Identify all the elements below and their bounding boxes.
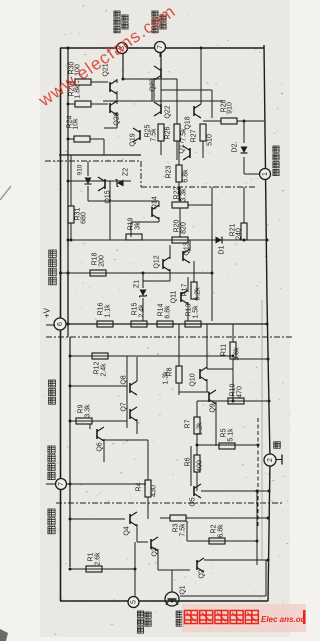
svg-text:R26: R26 <box>165 126 172 139</box>
svg-text:2.6k: 2.6k <box>95 552 102 566</box>
svg-text:R27: R27 <box>191 129 198 142</box>
svg-text:R3: R3 <box>173 523 180 532</box>
svg-text:7.5k: 7.5k <box>151 128 158 142</box>
svg-text:Q7: Q7 <box>121 402 128 411</box>
svg-text:6.8k: 6.8k <box>183 169 190 183</box>
svg-text:2: 2 <box>267 458 274 462</box>
svg-text:D2: D2 <box>232 143 239 152</box>
svg-text:R15: R15 <box>132 302 139 315</box>
svg-text:820: 820 <box>181 222 188 234</box>
svg-text:240: 240 <box>236 228 243 240</box>
svg-text:R2: R2 <box>211 524 218 533</box>
svg-text:Q6: Q6 <box>97 442 104 451</box>
svg-text:R14: R14 <box>158 303 165 316</box>
svg-text:Q1: Q1 <box>180 585 187 594</box>
svg-text:Q17: Q17 <box>179 140 186 153</box>
svg-text:7: 7 <box>58 482 65 486</box>
svg-text:3.3k: 3.3k <box>85 404 92 418</box>
svg-text:Q10: Q10 <box>190 373 197 386</box>
svg-text:R18: R18 <box>92 252 99 265</box>
svg-text:910: 910 <box>77 164 84 175</box>
svg-text:2.4k: 2.4k <box>101 363 108 377</box>
svg-text:5.1k: 5.1k <box>228 428 235 442</box>
svg-text:Q22: Q22 <box>165 105 172 118</box>
svg-text:R19: R19 <box>128 217 135 230</box>
svg-text:Z1: Z1 <box>134 280 141 288</box>
svg-text:R22: R22 <box>174 186 181 199</box>
svg-text:D1: D1 <box>219 245 226 254</box>
svg-text:R6: R6 <box>185 457 192 466</box>
svg-text:6.8k: 6.8k <box>218 524 225 538</box>
svg-text:3k: 3k <box>135 222 142 230</box>
svg-text:R9: R9 <box>78 404 85 413</box>
svg-text:R20: R20 <box>174 219 181 232</box>
svg-text:Q4: Q4 <box>124 526 131 535</box>
svg-text:Q13: Q13 <box>184 242 191 255</box>
svg-text:+V: +V <box>43 307 52 318</box>
svg-text:430: 430 <box>151 485 158 497</box>
svg-text:R16: R16 <box>98 302 105 315</box>
svg-text:3.3k: 3.3k <box>181 188 188 202</box>
svg-text:7: 7 <box>157 45 164 49</box>
svg-text:6: 6 <box>57 322 64 326</box>
svg-text:Q3: Q3 <box>152 547 159 556</box>
svg-text:Elec ans.oo: Elec ans.oo <box>261 615 306 624</box>
svg-text:7.5k: 7.5k <box>180 523 187 537</box>
svg-text:1.2k: 1.2k <box>197 422 204 436</box>
svg-text:Q9: Q9 <box>210 403 217 412</box>
svg-text:5: 5 <box>131 600 138 604</box>
svg-text:R5: R5 <box>221 428 228 437</box>
svg-text:R10: R10 <box>230 383 237 396</box>
svg-text:1.3k: 1.3k <box>163 371 170 385</box>
svg-text:R13: R13 <box>186 303 193 316</box>
svg-text:400: 400 <box>197 460 204 472</box>
svg-text:680: 680 <box>81 212 88 224</box>
svg-text:1.1k: 1.1k <box>105 304 112 318</box>
svg-text:1.5k: 1.5k <box>193 305 200 319</box>
svg-text:Q18: Q18 <box>185 116 192 129</box>
svg-text:R4: R4 <box>136 482 143 491</box>
svg-text:510: 510 <box>207 134 214 146</box>
svg-text:10k: 10k <box>73 118 80 130</box>
svg-text:R12: R12 <box>94 361 101 374</box>
svg-text:Q11: Q11 <box>171 291 178 304</box>
svg-text:6.2k: 6.2k <box>195 287 202 301</box>
svg-text:Q14: Q14 <box>152 196 159 209</box>
svg-text:Q2: Q2 <box>199 569 206 578</box>
svg-text:Q8: Q8 <box>121 375 128 384</box>
svg-text:2.4k: 2.4k <box>139 304 146 318</box>
svg-text:910: 910 <box>227 102 234 114</box>
svg-text:R11: R11 <box>221 344 228 356</box>
svg-text:R23: R23 <box>166 165 173 178</box>
svg-text:Q12: Q12 <box>154 255 161 268</box>
svg-text:470: 470 <box>237 386 244 398</box>
svg-text:1: 1 <box>262 172 269 176</box>
svg-text:Q19: Q19 <box>130 133 137 146</box>
svg-text:200: 200 <box>99 255 106 267</box>
svg-text:6.8k: 6.8k <box>165 305 172 319</box>
svg-text:Q5: Q5 <box>190 497 197 506</box>
svg-text:R7: R7 <box>185 419 192 428</box>
svg-text:Z2: Z2 <box>123 168 130 176</box>
svg-text:R1: R1 <box>88 552 95 561</box>
svg-text:Q23: Q23 <box>150 78 157 91</box>
